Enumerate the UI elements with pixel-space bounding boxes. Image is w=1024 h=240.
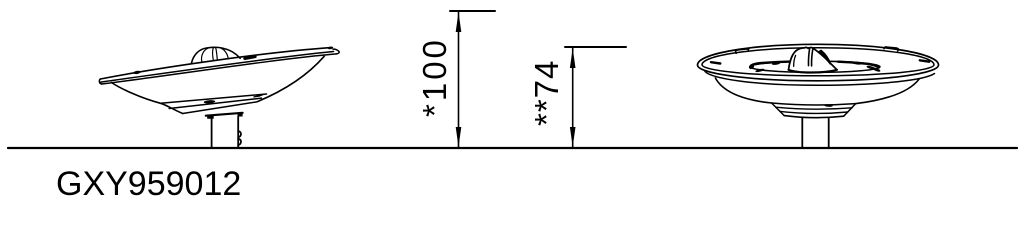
- left view: disc rim top edge: [100, 48, 331, 79]
- left view: hub tab left: [207, 115, 214, 119]
- left view: flange bottom line: [183, 102, 257, 114]
- right view: dome right sliver facet: [819, 50, 830, 63]
- right view: rim notch right: [920, 60, 929, 61]
- left view: bolt oval on plate left: [133, 70, 141, 74]
- right view: dish top-left heavy arc: [750, 62, 791, 68]
- left view: bowl right silhouette: [258, 56, 325, 101]
- right view: rim notch upper left: [735, 49, 748, 54]
- right view: bowl cone left edge: [715, 78, 771, 103]
- svg-text:*100: *100: [416, 37, 453, 117]
- right view: base arc 4: [784, 116, 844, 118]
- left view: disc rim front top edge: [101, 52, 334, 83]
- right view: bowl cone right edge: [856, 79, 919, 104]
- left view: disc rim front bottom edge: [102, 54, 337, 84]
- svg-text:GXY959012: GXY959012: [56, 165, 241, 203]
- dimension **74: top arrow: [570, 48, 576, 68]
- right view: dish top-right heavy arc: [838, 62, 879, 68]
- dimension *100: vertical line: [458, 12, 460, 147]
- right view: base dot: [824, 104, 833, 107]
- left view: flange middle line: [169, 98, 261, 108]
- left view: hub dark bar: [206, 113, 243, 116]
- left view: rim left tip cap: [99, 79, 101, 84]
- dimension **74: vertical line: [572, 48, 574, 147]
- left view: flange oval mark: [204, 100, 216, 104]
- left view: rim right tip dark oval: [328, 46, 334, 49]
- right view: base arc 2: [776, 107, 852, 109]
- right view: rim front lower edge: [705, 72, 935, 86]
- right view: base right side: [844, 104, 856, 117]
- right view: base arc 1: [772, 103, 856, 105]
- right view: base left side: [772, 103, 785, 116]
- right view: outer rim ellipse: [698, 44, 939, 81]
- left view: bowl left silhouette: [112, 83, 183, 114]
- left view: flange top line: [161, 94, 267, 103]
- right view: dish dark dashes: [749, 62, 881, 73]
- left view: hub tab right: [238, 112, 243, 117]
- right view: rim notch left: [711, 62, 720, 63]
- left view: pedestal column: [212, 117, 239, 148]
- right view: center dome: [789, 47, 838, 72]
- right view: inner lip ellipse: [702, 48, 934, 76]
- ground line: [8, 147, 1017, 149]
- right view: inner dish ellipse: [750, 61, 880, 72]
- left view: column clamp bumps: [238, 131, 241, 145]
- left view: flange right wedge mark: [254, 94, 264, 97]
- right view: pedestal column: [802, 118, 828, 148]
- dimension *100: bottom arrow: [456, 127, 462, 147]
- dimension **74: bottom arrow: [570, 127, 576, 147]
- dimension *100: top arrow: [456, 12, 462, 32]
- dimension **74: top tick: [565, 46, 626, 48]
- dimension *100: top tick: [450, 10, 495, 12]
- right view: base arc 3: [780, 111, 848, 113]
- svg-text:**74: **74: [528, 60, 565, 126]
- left view: handle mark right of dome: [245, 57, 255, 59]
- left view: center dome: [192, 47, 241, 63]
- left view: rim right tip cap: [333, 49, 339, 54]
- right view: rim notch upper right: [884, 47, 899, 51]
